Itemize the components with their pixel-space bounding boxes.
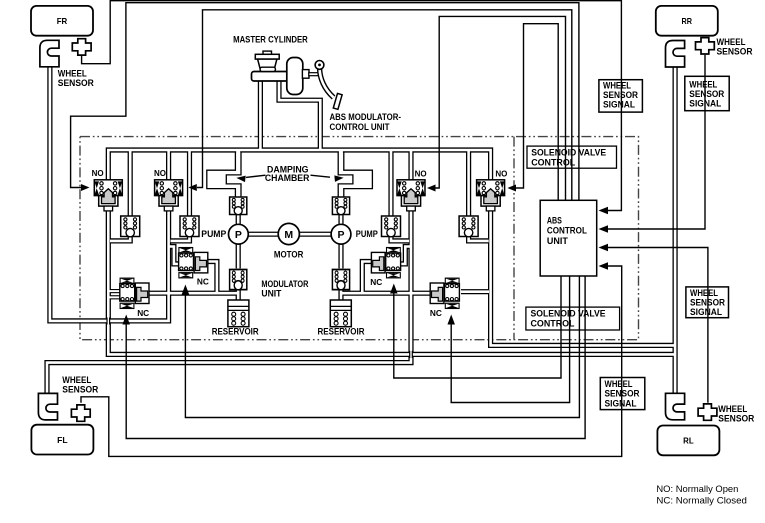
pipe: riser to check valve CV4 xyxy=(466,150,471,216)
svg-text:CONTROL: CONTROL xyxy=(547,226,587,236)
pipe: pump P2 to inlet check valve xyxy=(338,243,343,268)
wire: solenoid control to valve NO1 xyxy=(71,3,579,201)
svg-text:MOTOR: MOTOR xyxy=(274,250,304,260)
wheel sensor FL xyxy=(71,405,90,421)
pipe: NO3 channel to front-left caliper line xyxy=(47,206,411,394)
pipe: NO2 channel to front-right caliper line (left edge) xyxy=(50,66,169,321)
svg-text:ABS MODULATOR-: ABS MODULATOR- xyxy=(330,112,402,122)
pipe: NC1 outlet drain to reservoir 1 column xyxy=(149,291,237,296)
arrowhead: solenoid control into NC1 xyxy=(122,315,130,325)
svg-text:PUMP: PUMP xyxy=(356,229,378,239)
box: wheel sensor signal (FR wire, top) xyxy=(599,80,643,112)
pipe: damper check valve to pump P2 xyxy=(338,215,343,227)
box: solenoid valve control (bottom) xyxy=(526,307,620,330)
pipe: NO1 channel down and right to rear brake line junction xyxy=(108,206,675,354)
arrowhead: solenoid control into NC3 xyxy=(390,284,398,294)
leader: damping chamber label left arrow xyxy=(246,175,266,177)
svg-text:NO: NO xyxy=(154,168,166,178)
svg-text:NC: NC xyxy=(197,277,209,287)
svg-text:RESERVOIR: RESERVOIR xyxy=(212,326,259,336)
master cylinder reservoir cap xyxy=(263,51,272,55)
svg-text:SENSOR: SENSOR xyxy=(717,47,753,57)
inlet valve NO3 (normally open) xyxy=(397,180,425,211)
svg-text:NO: NO xyxy=(415,169,427,179)
pipe: master cylinder right outlet down to main line xyxy=(279,80,320,150)
pipe: NC1 upper inlet stub xyxy=(108,289,121,293)
pump inlet check valve (right) xyxy=(332,270,349,290)
pump outlet check valve (left) xyxy=(230,197,247,215)
pump outlet check valve (right) xyxy=(332,197,349,215)
svg-text:SIGNAL: SIGNAL xyxy=(603,100,635,110)
svg-text:CONTROL: CONTROL xyxy=(531,158,575,168)
svg-text:P: P xyxy=(235,229,242,241)
wire: solenoid control to valve NC1 xyxy=(126,276,585,439)
brake caliper FL xyxy=(38,393,57,420)
arrowhead: FL sensor signal into ABS control unit xyxy=(599,262,609,270)
svg-text:WHEEL: WHEEL xyxy=(718,404,747,414)
crossing restoration: NO3 channel over rear line xyxy=(410,351,413,358)
inlet valve NO2 (normally open) xyxy=(155,180,183,211)
box: wheel sensor signal (FL wire, bottom) xyxy=(600,378,645,410)
booster pushrod xyxy=(302,70,309,79)
svg-text:SENSOR: SENSOR xyxy=(58,78,94,88)
check valve CV3 xyxy=(382,216,401,237)
arrowhead: solenoid control into NC2 xyxy=(182,285,190,295)
svg-text:WHEEL: WHEEL xyxy=(690,288,718,298)
svg-text:NC: NC xyxy=(370,277,382,287)
svg-text:FR: FR xyxy=(57,16,68,26)
svg-text:UNIT: UNIT xyxy=(547,236,568,246)
pipe: NC3 outlet drain down to reservoir 2 column xyxy=(362,262,371,293)
arrowhead: FR sensor signal into ABS control unit xyxy=(599,207,609,215)
wire: solenoid control to valve NC4 xyxy=(451,276,569,403)
svg-text:CONTROL UNIT: CONTROL UNIT xyxy=(330,122,390,132)
inlet valve NO4 (normally open) xyxy=(477,180,505,211)
check valve CV4 xyxy=(459,216,478,237)
pipe: master-cylinder main supply line across modulator top xyxy=(108,150,490,180)
master cylinder body xyxy=(252,72,289,82)
inlet valve NO1 (normally open) xyxy=(94,180,122,211)
svg-text:RESERVOIR: RESERVOIR xyxy=(318,326,365,336)
pipe: NO4 channel right to rear brake line junction xyxy=(491,206,675,345)
wire: solenoid control to valve NC2 xyxy=(185,276,579,418)
wire: solenoid control to valve NO4 xyxy=(516,24,558,201)
svg-text:NO: NO xyxy=(92,168,104,178)
svg-text:SENSOR: SENSOR xyxy=(689,89,724,99)
arrowhead: solenoid control into NO2 xyxy=(188,184,197,191)
wheel box RR xyxy=(656,6,718,36)
pipe: CV2 return to NO2 channel xyxy=(171,236,190,241)
svg-text:WHEEL: WHEEL xyxy=(689,79,717,89)
pipe: CV4 return to NO4 channel xyxy=(469,236,489,241)
svg-text:SENSOR: SENSOR xyxy=(718,414,754,424)
arrowhead: RL sensor signal into ABS control unit xyxy=(599,244,609,252)
svg-text:MASTER CYLINDER: MASTER CYLINDER xyxy=(233,34,308,45)
arrowhead: RR sensor signal into ABS control unit xyxy=(599,225,609,233)
svg-text:WHEEL: WHEEL xyxy=(62,375,91,385)
svg-text:CONTROL: CONTROL xyxy=(531,319,575,329)
outlet valve NC2 (normally closed) xyxy=(179,248,208,278)
brake booster xyxy=(287,58,303,95)
pipe: NC4 inlet stub from NO4 channel xyxy=(461,289,489,294)
svg-text:SIGNAL: SIGNAL xyxy=(605,398,637,408)
pump inlet check valve (left) xyxy=(230,270,247,290)
pipe: NC2 inlet stub from NO2 channel xyxy=(169,247,180,264)
wheel sensor RL xyxy=(698,404,717,420)
svg-text:PUMP: PUMP xyxy=(201,229,226,239)
pipe inner white cores (shared) xyxy=(108,150,490,180)
svg-text:SOLENOID VALVE: SOLENOID VALVE xyxy=(531,309,606,319)
dash-dot border: ABS modulator-control unit outline xyxy=(80,137,639,340)
arrowhead: solenoid control into NO4 xyxy=(508,185,517,192)
pipe: pump P1 to inlet check valve xyxy=(236,243,241,268)
box: wheel sensor signal (RL wire) xyxy=(686,287,729,318)
box: wheel sensor signal (RR wire) xyxy=(685,76,729,110)
pipe: rear brake line between RR and RL calipers xyxy=(672,66,677,395)
wire: solenoid control to valve NC3 xyxy=(394,276,561,378)
svg-text:NO: NO xyxy=(495,169,507,179)
wire: FR wheel sensor signal to ABS control unit xyxy=(82,1,622,211)
svg-text:WHEEL: WHEEL xyxy=(605,379,633,389)
shaft: motor to pump P2 xyxy=(299,232,332,237)
wire: RR wheel sensor signal to ABS control unit xyxy=(608,55,706,229)
svg-text:NC: NC xyxy=(430,308,442,318)
svg-text:WHEEL: WHEEL xyxy=(603,80,631,90)
leader: damping chamber label right arrow xyxy=(311,175,331,177)
damping chamber left (outline) xyxy=(207,152,241,197)
arrowhead: solenoid control into NO1 xyxy=(81,184,90,191)
pipe: damper check valve to pump P1 xyxy=(236,215,241,227)
pipe: riser to check valve CV1 xyxy=(128,150,133,216)
svg-text:SOLENOID VALVE: SOLENOID VALVE xyxy=(531,148,606,158)
box: ABS control unit xyxy=(540,200,597,276)
wheel sensor FR xyxy=(72,39,91,55)
wheel sensor RR xyxy=(696,38,715,54)
pipe: inlet check valve to reservoir 1 xyxy=(236,289,241,302)
svg-text:ABS: ABS xyxy=(547,216,562,226)
svg-text:WHEEL: WHEEL xyxy=(58,69,87,79)
box: solenoid valve control (top) xyxy=(527,146,617,168)
svg-text:MODULATOR: MODULATOR xyxy=(261,279,308,289)
brake caliper FR xyxy=(40,40,59,67)
outlet valve NC4 (normally closed) xyxy=(430,278,459,308)
svg-text:SENSOR: SENSOR xyxy=(603,90,638,100)
pipe: riser to check valve CV3 xyxy=(388,150,393,216)
wheel box FL xyxy=(31,425,93,455)
svg-text:M: M xyxy=(284,229,293,241)
brake caliper RR xyxy=(666,41,685,68)
svg-text:RL: RL xyxy=(683,436,694,446)
svg-text:WHEEL: WHEEL xyxy=(717,37,746,47)
outlet valve NC3 (normally closed) xyxy=(371,248,400,278)
brake caliper RL xyxy=(666,393,685,420)
arrowhead: solenoid control into NC4 xyxy=(447,315,455,325)
pipe: riser to inlet valve NO2 xyxy=(166,150,171,180)
check valve CV1 xyxy=(121,216,140,237)
brake pedal lever xyxy=(320,69,334,98)
pipe: CV1 return to NO1 channel xyxy=(110,236,130,241)
pipe: riser to check valve CV2 xyxy=(187,150,192,216)
svg-text:SENSOR: SENSOR xyxy=(62,385,98,395)
pipe: riser to inlet valve NO3 xyxy=(408,150,413,180)
check valve CV2 xyxy=(180,216,199,237)
wheel box FR xyxy=(31,6,93,36)
arrowhead: solenoid control into NO3 xyxy=(427,185,436,192)
svg-text:NO: Normally Open: NO: Normally Open xyxy=(656,484,738,494)
pipe: NC1 lower inlet stub xyxy=(108,295,121,299)
svg-text:NC: Normally Closed: NC: Normally Closed xyxy=(656,496,747,506)
svg-text:UNIT: UNIT xyxy=(261,289,281,299)
pipe: CV3 return to NO3 channel xyxy=(391,236,409,241)
pipe: NC3 inlet stub from NO3 channel xyxy=(400,247,411,264)
svg-text:RR: RR xyxy=(682,16,693,26)
reservoir 1 xyxy=(228,300,249,327)
pipe: master cylinder left outlet down to main line xyxy=(258,80,263,150)
reservoir 2 xyxy=(330,300,351,327)
wire: FL wheel sensor signal to ABS control unit xyxy=(81,266,622,456)
outlet valve NC1 (normally closed) xyxy=(120,278,149,308)
motor M xyxy=(278,223,299,244)
brake pedal pivot xyxy=(315,61,324,70)
dash-dot divider between hydraulic modulator and ABS control unit xyxy=(513,137,515,340)
svg-text:NC: NC xyxy=(137,308,149,318)
pipe: NC2 outlet drain down to reservoir 1 column xyxy=(208,262,217,293)
pipe: inlet check valve to reservoir 2 xyxy=(338,289,343,302)
wire: solenoid control to valve NO3 xyxy=(436,16,566,200)
crossing restoration: NO1 channel over FR line xyxy=(107,318,110,325)
svg-text:P: P xyxy=(337,229,344,241)
shaft: pump P1 to motor xyxy=(248,232,280,237)
wire: solenoid control to valve NO2 xyxy=(197,10,572,201)
damping chamber mouth openings on main line xyxy=(236,151,240,154)
brake pedal pad xyxy=(333,93,342,109)
wire: RL wheel sensor signal to ABS control unit xyxy=(608,248,708,403)
svg-text:CHAMBER: CHAMBER xyxy=(265,173,310,183)
wheel box RL xyxy=(657,426,719,456)
pump P2 xyxy=(331,224,351,244)
svg-text:SIGNAL: SIGNAL xyxy=(690,307,722,317)
damping chamber right (outline) xyxy=(338,152,372,197)
svg-text:FL: FL xyxy=(57,435,68,445)
pump P1 xyxy=(229,224,249,244)
pipe: NC4 outlet drain to reservoir 2 column xyxy=(342,291,430,296)
